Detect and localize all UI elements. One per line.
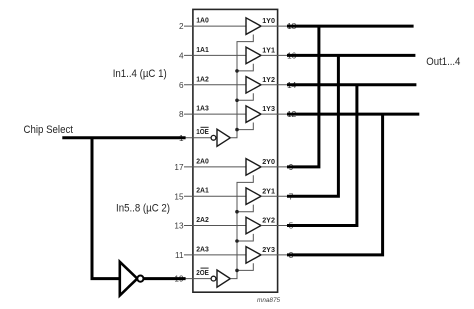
wire: enable tap to buffer 2Y3 <box>237 263 253 270</box>
svg-text:2A3: 2A3 <box>196 244 209 253</box>
wire: buffer 4 output to pin 12 <box>261 113 292 115</box>
wire: input lead pin 6 to buffer 3 <box>184 84 246 86</box>
wire: input lead pin 4 to buffer 2 <box>184 54 246 56</box>
svg-text:2Y2: 2Y2 <box>262 216 275 225</box>
junction dot on enable bus group 2 <box>235 269 239 273</box>
buffer amplifier 8 (2Y3) <box>246 247 261 264</box>
wire: enable tap to buffer 1Y1 <box>237 64 253 71</box>
svg-text:2A2: 2A2 <box>196 215 209 224</box>
wire: inverter U2 output to pin 19 (thick) <box>144 277 186 280</box>
inverter U2 output bubble <box>137 276 143 282</box>
junction dot on enable bus group 2 <box>235 239 239 243</box>
wire: Chip Select branch down to inverter U2 input <box>92 138 120 279</box>
svg-text:6: 6 <box>179 81 184 90</box>
buffer amplifier 4 (1Y3) <box>246 106 261 123</box>
wire: buffer 8 output to pin 3 <box>261 254 292 256</box>
svg-text:13: 13 <box>174 222 184 231</box>
wire: enable tap to buffer 2Y1 <box>237 205 253 212</box>
svg-text:1A0: 1A0 <box>196 16 209 25</box>
buffer amplifier 3 (1Y2) <box>246 77 261 94</box>
svg-text:1A2: 1A2 <box>196 74 209 83</box>
svg-text:2: 2 <box>179 22 184 31</box>
wire: enable tap to buffer 1Y2 <box>237 93 253 100</box>
enable buffer triangle 2OE <box>217 270 230 287</box>
wire: buffer 3 output to pin 14 <box>261 84 292 86</box>
buffer amplifier 1 (1Y0) <box>246 18 261 35</box>
svg-text:1OE: 1OE <box>196 127 209 136</box>
svg-text:17: 17 <box>174 163 184 172</box>
wire: buffer 5 output to pin 9 <box>261 166 292 168</box>
enable buffer triangle 1OE <box>217 129 230 146</box>
wire: Out1 bus from pin 18 (thick) <box>287 25 414 28</box>
svg-text:In5..8 (µC 2): In5..8 (µC 2) <box>116 203 170 215</box>
svg-text:11: 11 <box>175 251 184 260</box>
svg-text:2A0: 2A0 <box>196 156 209 165</box>
wire: Out3 link down to pin 5 (thick) <box>287 85 357 226</box>
wire: input lead pin 13 to buffer 7 <box>184 225 246 227</box>
inverting bubble on 1OE enable buffer <box>211 135 216 140</box>
svg-text:1Y1: 1Y1 <box>262 46 275 55</box>
wire: Out3 bus from pin 14 (thick) <box>287 83 416 86</box>
svg-text:1Y3: 1Y3 <box>262 104 275 113</box>
svg-text:1A1: 1A1 <box>196 45 209 54</box>
junction dot on enable bus group 1 <box>235 69 239 73</box>
overline over OE of 1OE <box>201 126 209 128</box>
svg-text:Chip Select: Chip Select <box>24 124 74 136</box>
inverting bubble on 2OE enable buffer <box>211 276 216 281</box>
wire: buffer 6 output to pin 7 <box>261 195 292 197</box>
inverter U2 triangle <box>120 262 138 296</box>
svg-text:15: 15 <box>174 192 184 201</box>
junction dot on enable bus group 1 <box>235 99 239 103</box>
wire: Chip Select net to pin 1 (thick) <box>62 136 185 139</box>
wire: Out4 bus from pin 12 (thick) <box>287 113 419 116</box>
buffer amplifier 6 (2Y1) <box>246 188 261 205</box>
wire: input lead pin 2 to buffer 1 <box>184 25 246 27</box>
wire: buffer 7 output to pin 5 <box>261 225 292 227</box>
wire: input lead pin 15 to buffer 6 <box>184 195 246 197</box>
overline over OE of 2OE <box>201 267 209 269</box>
wire: enable bus group 2 (2OE output up the buffers) <box>230 175 253 278</box>
wire: enable bus group 1 (1OE output up the buffers) <box>230 35 253 138</box>
wire: pin 1 lead to 1OE bubble <box>184 137 211 139</box>
svg-text:mna875: mna875 <box>257 297 281 304</box>
wire: input lead pin 8 to buffer 4 <box>184 113 246 115</box>
svg-text:2OE: 2OE <box>196 268 209 277</box>
svg-text:In1..4 (µC 1): In1..4 (µC 1) <box>113 68 167 80</box>
IC U1 body (octal buffer) <box>193 9 278 292</box>
wire: Out4 link down to pin 3 (thick) <box>287 114 383 255</box>
svg-text:2Y3: 2Y3 <box>262 245 275 254</box>
wire: Out1 link down to pin 9 (thick) <box>287 26 319 167</box>
svg-text:1A3: 1A3 <box>196 104 209 113</box>
wire: enable tap to buffer 2Y2 <box>237 234 253 241</box>
svg-text:4: 4 <box>179 52 184 61</box>
junction dot on enable bus group 2 <box>235 210 239 214</box>
svg-text:2A1: 2A1 <box>196 186 209 195</box>
svg-text:2Y0: 2Y0 <box>262 157 275 166</box>
buffer amplifier 2 (1Y1) <box>246 47 261 64</box>
buffer amplifier 5 (2Y0) <box>246 159 261 176</box>
wire: input lead pin 17 to buffer 5 <box>184 166 246 168</box>
buffer amplifier 7 (2Y2) <box>246 217 261 234</box>
svg-text:2Y1: 2Y1 <box>262 186 275 195</box>
wire: Out2 link down to pin 7 (thick) <box>287 55 338 196</box>
wire: enable tap to buffer 1Y3 <box>237 123 253 130</box>
junction dot on enable bus group 1 <box>235 128 239 132</box>
svg-text:8: 8 <box>179 110 184 119</box>
svg-text:1Y0: 1Y0 <box>262 16 275 25</box>
wire: buffer 1 output to pin 18 <box>261 25 292 27</box>
svg-text:Out1...4: Out1...4 <box>426 56 460 68</box>
wire: input lead pin 11 to buffer 8 <box>184 254 246 256</box>
wire: Out2 bus from pin 16 (thick) <box>287 54 415 57</box>
wire: buffer 2 output to pin 16 <box>261 54 292 56</box>
wire: pin 19 lead to 2OE bubble <box>184 278 211 280</box>
svg-text:1Y2: 1Y2 <box>262 75 275 84</box>
